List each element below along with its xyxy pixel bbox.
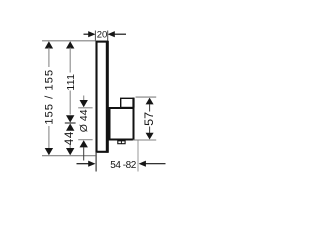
svg-text:111: 111 bbox=[65, 74, 77, 91]
svg-text:44: 44 bbox=[64, 131, 76, 145]
svg-text:Ø 44: Ø 44 bbox=[78, 109, 90, 132]
svg-text:54 -82: 54 -82 bbox=[110, 160, 136, 171]
svg-text:57: 57 bbox=[144, 112, 156, 126]
svg-text:155 / 155: 155 / 155 bbox=[44, 70, 56, 125]
svg-text:20: 20 bbox=[97, 30, 108, 41]
